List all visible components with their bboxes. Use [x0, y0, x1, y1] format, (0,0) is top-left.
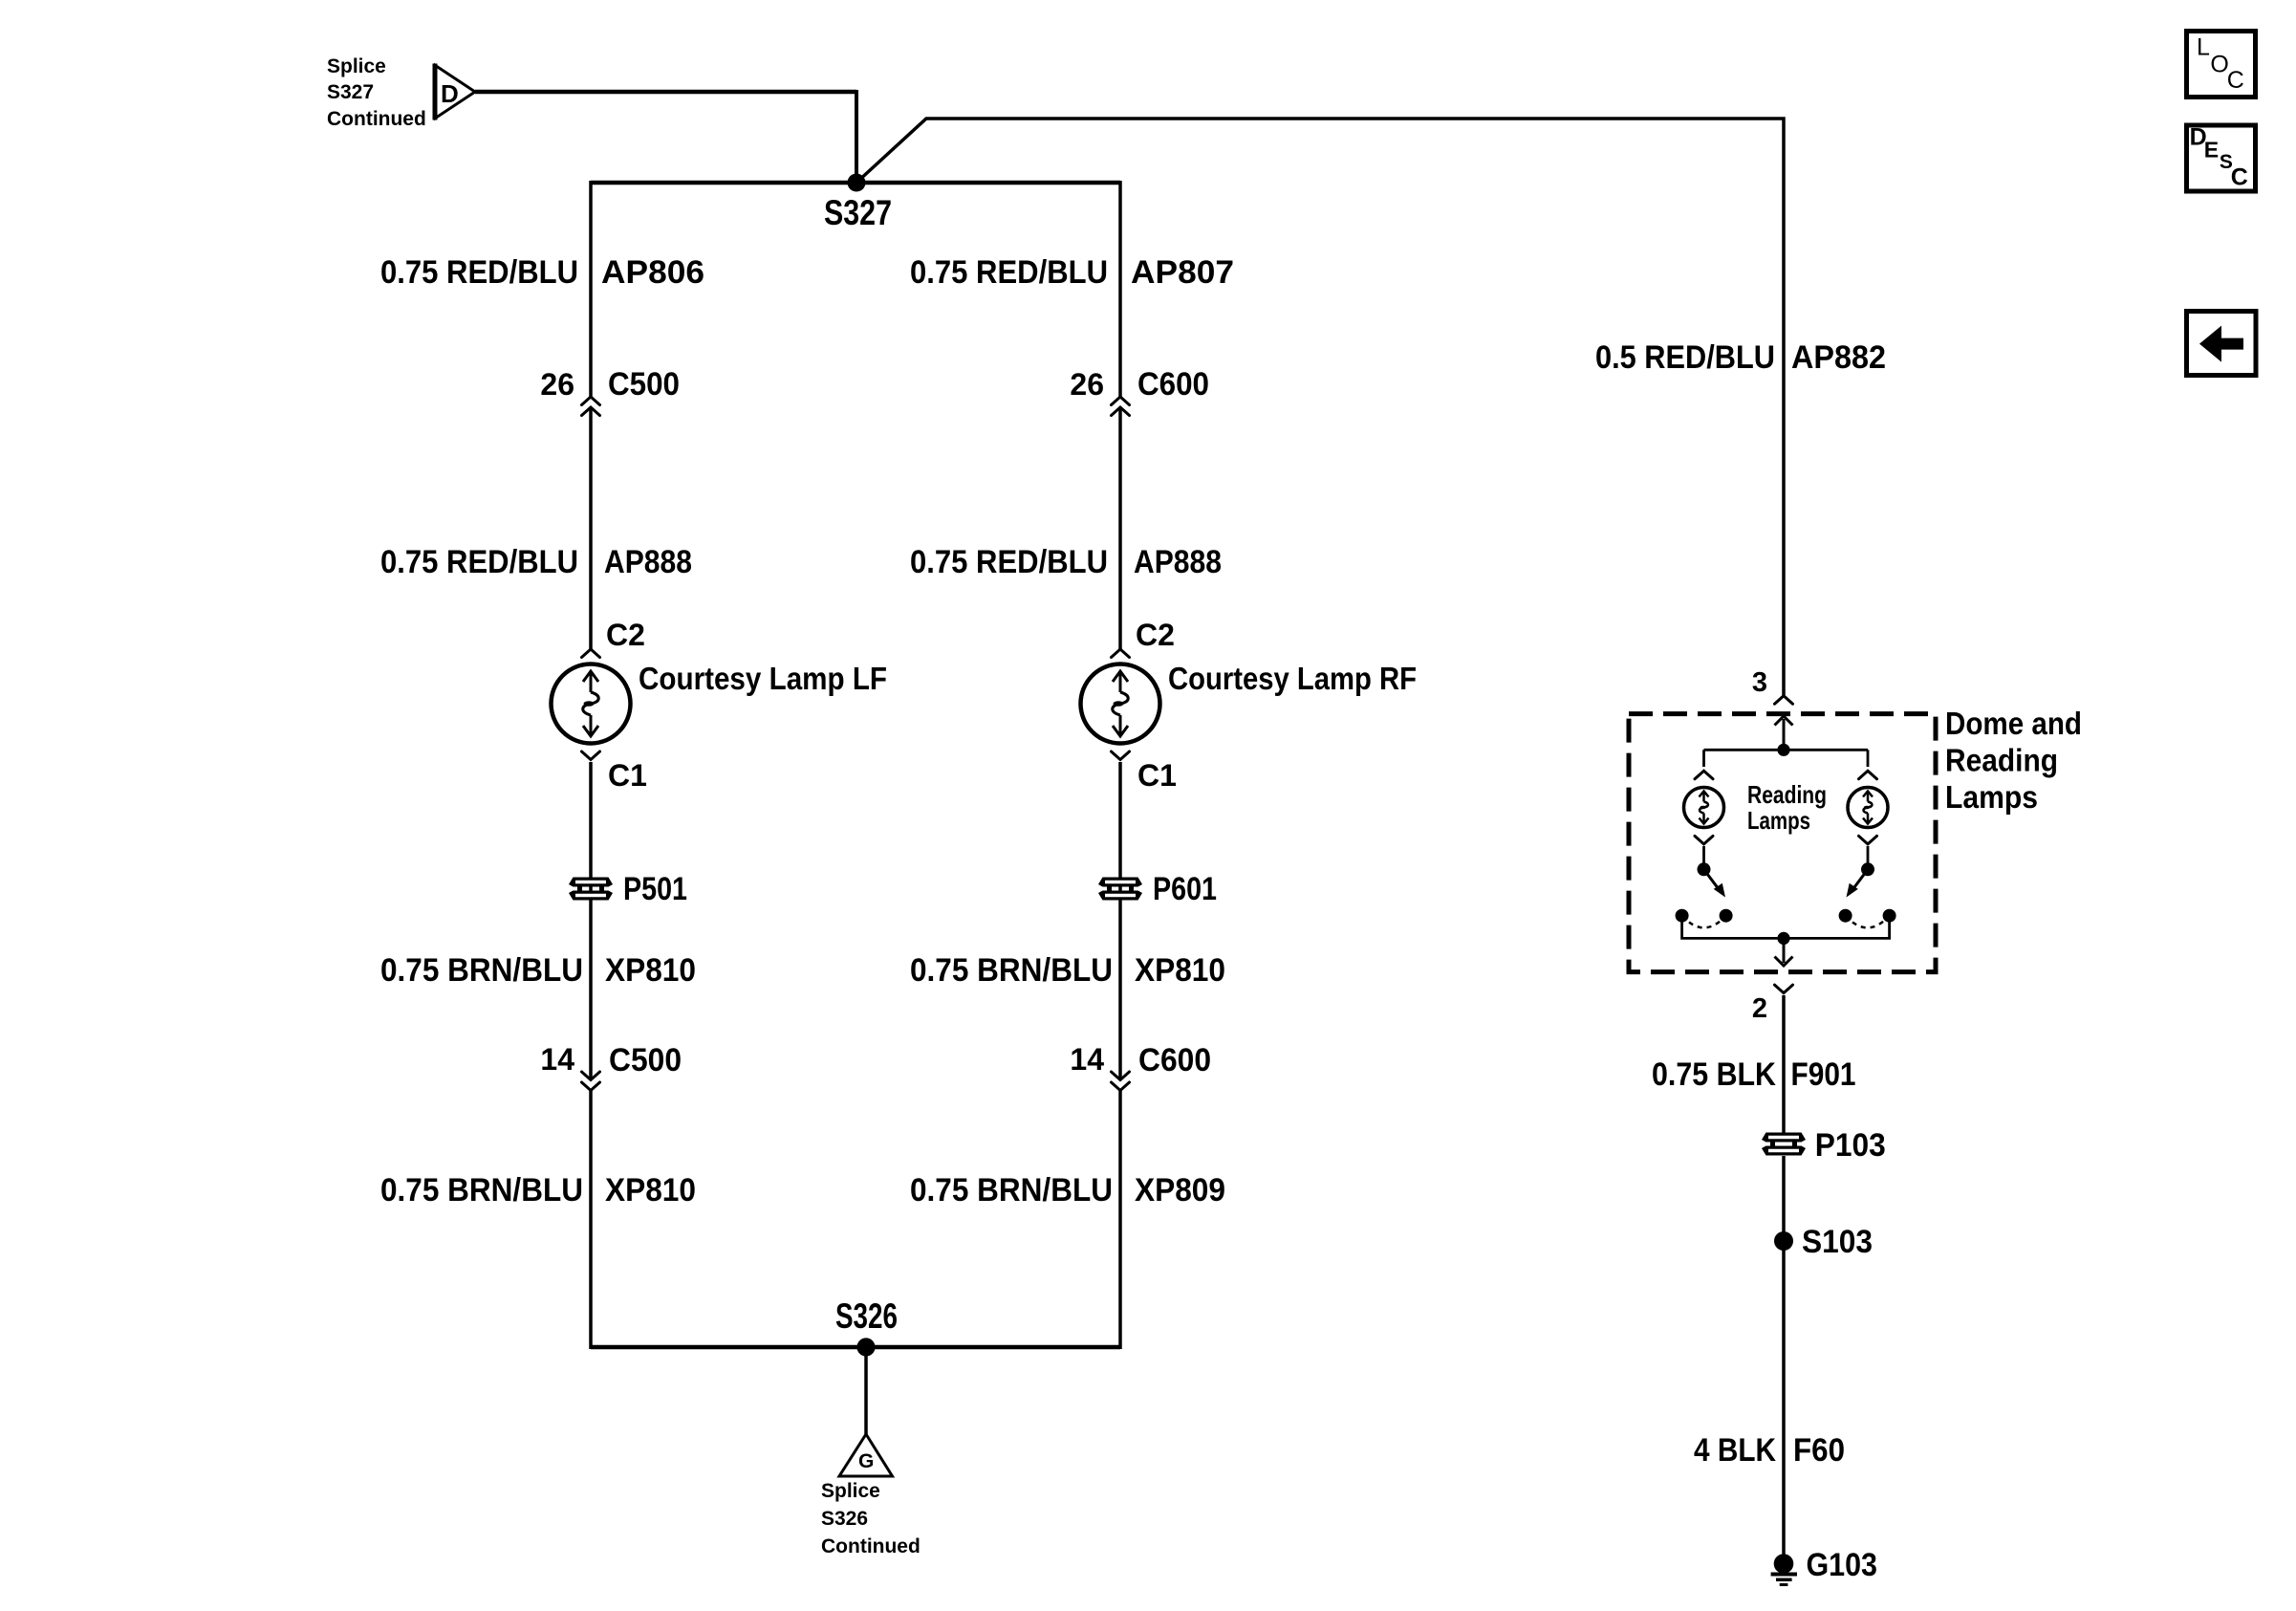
- wire XP810 lower: [589, 1090, 593, 1349]
- wire down to S327: [855, 90, 858, 183]
- off-page triangle D: [435, 64, 475, 120]
- reading lamp bulb left: [1684, 788, 1724, 828]
- left switch pivot: [1698, 862, 1711, 876]
- DESC box: [2187, 124, 2256, 192]
- LOC box: [2187, 32, 2256, 98]
- svg-text:AP807: AP807: [1131, 254, 1234, 291]
- svg-text:G103: G103: [1807, 1547, 1878, 1583]
- right switch pivot: [1861, 862, 1874, 876]
- wire to P601: [1118, 762, 1122, 1080]
- svg-text:0.75 RED/BLU: 0.75 RED/BLU: [380, 254, 578, 291]
- pin C1: [582, 751, 600, 760]
- svg-text:Continued: Continued: [821, 1535, 921, 1557]
- svg-text:0.75 BRN/BLU: 0.75 BRN/BLU: [380, 952, 583, 989]
- svg-text:Reading: Reading: [1747, 780, 1827, 809]
- svg-text:14: 14: [1070, 1042, 1104, 1077]
- dashed box Dome and Reading Lamps: [1629, 714, 1936, 972]
- wire across inside box top: [1704, 749, 1869, 751]
- svg-text:AP888: AP888: [1134, 544, 1222, 580]
- svg-text:Lamps: Lamps: [1945, 779, 2038, 815]
- node S326 junction dot: [856, 1338, 875, 1356]
- grommet P601: [1098, 878, 1142, 901]
- svg-text:4 BLK: 4 BLK: [1694, 1432, 1776, 1469]
- wire XP809: [1118, 1090, 1122, 1349]
- left lamp lower pin chevron: [1695, 836, 1713, 844]
- ground G103: [1771, 1554, 1797, 1584]
- svg-text:P501: P501: [623, 871, 687, 907]
- grommet P501: [569, 878, 613, 901]
- svg-text:XP810: XP810: [605, 952, 696, 989]
- wire to P501: [589, 762, 593, 1080]
- svg-text:C600: C600: [1137, 366, 1209, 403]
- svg-text:0.75 BRN/BLU: 0.75 BRN/BLU: [910, 952, 1113, 989]
- svg-text:0.5 RED/BLU: 0.5 RED/BLU: [1595, 339, 1775, 376]
- svg-text:Reading: Reading: [1945, 743, 2058, 778]
- svg-text:Splice: Splice: [327, 55, 386, 77]
- svg-text:AP882: AP882: [1791, 339, 1886, 376]
- svg-text:F60: F60: [1793, 1432, 1845, 1469]
- svg-text:P103: P103: [1815, 1127, 1886, 1164]
- svg-text:Courtesy Lamp RF: Courtesy Lamp RF: [1168, 661, 1417, 696]
- svg-text:AP806: AP806: [601, 254, 704, 291]
- svg-text:Continued: Continued: [327, 108, 426, 130]
- svg-text:3: 3: [1752, 667, 1767, 698]
- junction dot top inside box: [1777, 744, 1789, 756]
- svg-text:0.75 BLK: 0.75 BLK: [1652, 1056, 1776, 1093]
- courtesy lamp LF bulb: [552, 664, 631, 744]
- svg-text:G: G: [858, 1450, 874, 1472]
- svg-text:26: 26: [1070, 367, 1104, 402]
- svg-text:S103: S103: [1802, 1224, 1873, 1260]
- bottom bus wire: [591, 1345, 1120, 1350]
- svg-text:AP888: AP888: [604, 544, 692, 580]
- right switch contacts: [1839, 909, 1852, 923]
- wire AP888: [589, 407, 593, 649]
- svg-text:Lamps: Lamps: [1747, 806, 1810, 835]
- svg-text:S326: S326: [835, 1296, 898, 1336]
- svg-text:D: D: [441, 79, 459, 108]
- svg-text:C1: C1: [608, 758, 647, 793]
- svg-text:C2: C2: [1136, 618, 1175, 652]
- svg-text:14: 14: [540, 1042, 574, 1077]
- svg-text:C500: C500: [609, 1042, 682, 1078]
- dashed arc left switch: [1682, 916, 1726, 928]
- pin 2 chevron below box: [1775, 985, 1793, 993]
- svg-text:XP810: XP810: [1135, 952, 1225, 989]
- arrow up into box: [1775, 716, 1793, 750]
- wire F901: [1782, 995, 1786, 1133]
- wire AP806: [589, 181, 593, 397]
- svg-text:0.75 BRN/BLU: 0.75 BRN/BLU: [380, 1172, 583, 1208]
- svg-text:C1: C1: [1137, 758, 1177, 793]
- courtesy lamp RF bulb: [1081, 664, 1160, 744]
- wire F60: [1782, 1241, 1786, 1564]
- off-page triangle G: [839, 1434, 893, 1476]
- svg-text:2: 2: [1752, 993, 1767, 1024]
- svg-text:0.75 RED/BLU: 0.75 RED/BLU: [910, 254, 1108, 291]
- svg-text:XP809: XP809: [1135, 1172, 1225, 1208]
- bottom wire inside box: [1682, 916, 1890, 939]
- splice S326 continued label: [821, 1480, 921, 1557]
- svg-text:Splice: Splice: [821, 1480, 880, 1502]
- svg-text:C: C: [2227, 67, 2244, 94]
- svg-text:P601: P601: [1153, 871, 1217, 907]
- svg-text:C500: C500: [608, 366, 680, 403]
- svg-text:S326: S326: [821, 1508, 868, 1530]
- svg-text:S327: S327: [327, 81, 374, 103]
- wire from triangle D to S327: [475, 90, 856, 95]
- svg-text:Dome and: Dome and: [1945, 706, 2082, 741]
- svg-text:0.75 RED/BLU: 0.75 RED/BLU: [910, 544, 1108, 580]
- reading lamp bulb right: [1848, 788, 1888, 828]
- svg-text:F901: F901: [1791, 1056, 1856, 1093]
- svg-text:C600: C600: [1138, 1042, 1211, 1078]
- svg-text:E: E: [2204, 137, 2219, 162]
- pin C1 right: [1112, 751, 1130, 760]
- svg-text:0.75 BRN/BLU: 0.75 BRN/BLU: [910, 1172, 1113, 1208]
- svg-text:Courtesy Lamp LF: Courtesy Lamp LF: [639, 661, 887, 696]
- right lamp lower pin chevron: [1859, 836, 1877, 844]
- right switch arm with arrow: [1847, 869, 1869, 897]
- node S103: [1774, 1231, 1793, 1251]
- wire AP807: [1118, 181, 1122, 397]
- wire AP888 right: [1118, 407, 1122, 649]
- left switch arm with arrow: [1704, 869, 1726, 897]
- grommet P103: [1762, 1133, 1806, 1156]
- diagonal wire from S327: [856, 119, 1784, 695]
- arrow down out of box: [1775, 938, 1793, 966]
- svg-text:C: C: [2231, 164, 2248, 191]
- dashed arc right switch: [1846, 916, 1890, 928]
- svg-text:0.75 RED/BLU: 0.75 RED/BLU: [380, 544, 578, 580]
- svg-text:C2: C2: [606, 618, 645, 652]
- wire to S103: [1782, 1156, 1786, 1241]
- left switch contacts: [1676, 909, 1689, 923]
- right drop into reading lamp: [1867, 750, 1870, 767]
- top bus wire: [591, 181, 1120, 185]
- svg-text:XP810: XP810: [605, 1172, 696, 1208]
- wire to splice triangle: [864, 1347, 868, 1434]
- back arrow box: [2187, 312, 2257, 376]
- junction dot bottom inside box: [1777, 932, 1789, 945]
- svg-text:S327: S327: [824, 193, 892, 232]
- left drop into reading lamp: [1702, 750, 1705, 767]
- node S327 junction dot: [848, 174, 866, 192]
- svg-text:26: 26: [540, 367, 574, 402]
- splice S327 continued label: [327, 55, 426, 130]
- svg-text:L: L: [2197, 34, 2210, 61]
